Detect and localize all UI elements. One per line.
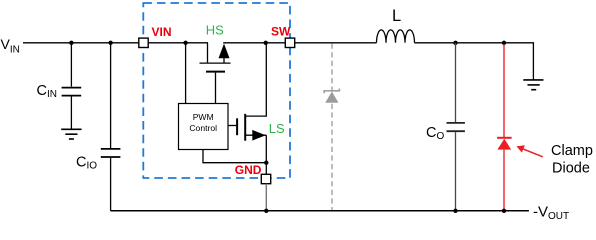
node junction dot CO bottom — [453, 209, 457, 213]
wire CO branch lower — [455, 132, 457, 211]
label pin SW — [271, 25, 291, 39]
label HS — [206, 23, 224, 38]
wire clamp diode branch lower (red) — [503, 150, 505, 210]
svg-text:PWM: PWM — [193, 112, 214, 122]
pin VIN square — [139, 38, 148, 47]
wire HS gate to PWM — [215, 73, 217, 104]
wire VIN tap to PWM block — [185, 43, 187, 104]
diode grey zener clamp (optional) — [324, 89, 339, 103]
capacitor CIO — [101, 149, 121, 157]
wire CIN branch down from rail — [70, 43, 72, 87]
node junction dot CIO tap — [108, 41, 112, 45]
arrow annotation to clamp diode — [517, 145, 543, 157]
label L value — [392, 7, 401, 25]
wire inductor to right corner — [415, 43, 534, 80]
transistor HS high-side FET — [200, 43, 231, 63]
svg-text:SW: SW — [271, 25, 291, 39]
wire CIN to ground — [70, 97, 72, 130]
wire CIO branch down from rail — [110, 43, 112, 148]
wire PWM to LS gate — [228, 125, 236, 127]
node -VOUT label — [533, 204, 569, 222]
label CO value — [426, 125, 444, 142]
ground symbol right — [523, 80, 543, 90]
wire clamp diode branch upper (red) — [503, 45, 505, 138]
transistor LS low-side FET — [237, 114, 266, 141]
wire top rail from VIN pin to HS source drop — [148, 42, 208, 44]
node junction dot GND bottom — [264, 209, 268, 213]
label Clamp Diode — [551, 143, 593, 176]
label pin GND — [235, 163, 262, 177]
svg-text:L: L — [392, 7, 401, 25]
node junction dot clamp bottom — [502, 209, 506, 213]
svg-text:HS: HS — [206, 23, 224, 38]
wire SW pin to inductor — [295, 42, 377, 44]
svg-text:GND: GND — [235, 163, 262, 177]
svg-text:VIN: VIN — [152, 25, 172, 39]
wire LS drain vertical — [246, 43, 266, 116]
label pin VIN — [152, 25, 172, 39]
label LS — [269, 121, 285, 136]
node VIN rail label — [1, 36, 20, 55]
ground symbol left — [61, 129, 81, 139]
pin GND square — [261, 174, 270, 183]
wire CO branch upper — [455, 43, 457, 122]
node junction dot GND internal — [264, 161, 268, 165]
wire grey dashed SW snub branch — [331, 44, 333, 211]
op-amp U1 PWM control block — [179, 104, 229, 150]
label CIN value — [37, 83, 57, 100]
node junction dot PWM supply tap — [183, 41, 187, 45]
diode clamp red — [497, 138, 512, 150]
wire LS source to GND node — [265, 135, 267, 174]
wire top rail from HS diode to SW pin — [223, 42, 285, 44]
svg-text:Diode: Diode — [552, 161, 590, 177]
inductor L — [377, 30, 415, 43]
svg-text:LS: LS — [269, 121, 285, 136]
label CIO value — [76, 154, 97, 171]
svg-text:Clamp: Clamp — [551, 143, 593, 159]
wire bottom rail — [111, 210, 529, 212]
wire PWM block to GND node — [203, 150, 266, 163]
diode HS body diode — [219, 44, 230, 64]
node junction dot clamp diode tap — [502, 41, 506, 45]
wire GND pin to bottom rail — [265, 184, 267, 211]
node junction dot LS drain tap — [264, 41, 268, 45]
node junction dot CO tap — [453, 41, 457, 45]
capacitor CIN — [62, 88, 82, 96]
capacitor CO — [447, 123, 465, 131]
wire top rail from VIN text to VIN pin — [23, 42, 139, 44]
wire CIO to bottom rail — [110, 158, 112, 211]
IC boundary dashed box — [143, 3, 290, 178]
pin SW square — [285, 38, 294, 47]
node junction dot CIN tap — [69, 41, 73, 45]
svg-text:Control: Control — [189, 123, 217, 133]
